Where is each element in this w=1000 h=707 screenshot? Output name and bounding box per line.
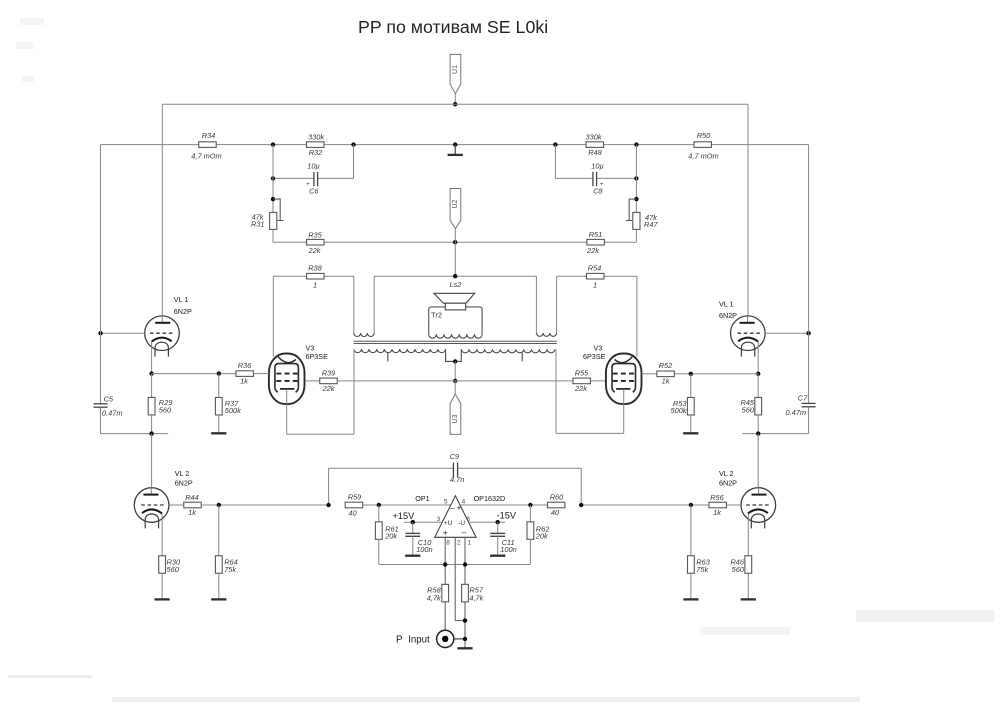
resistor R39 xyxy=(305,368,456,393)
resistor R35 xyxy=(307,231,325,255)
resistor R29 xyxy=(148,374,172,434)
svg-text:+: + xyxy=(457,504,462,513)
capacitor C5 xyxy=(94,145,123,434)
wire VL1 left grid xyxy=(101,332,145,334)
resistor R54 xyxy=(557,264,637,290)
wire VL1 right cathode xyxy=(757,342,759,374)
svg-text:330k: 330k xyxy=(585,132,601,141)
node +15V xyxy=(411,520,415,524)
svg-text:R47: R47 xyxy=(644,220,658,229)
inductor primary winding xyxy=(354,349,555,361)
inductor secondary left section xyxy=(354,333,374,337)
tube V3 right 6P3SE xyxy=(583,276,642,404)
node R64 top xyxy=(217,503,221,507)
svg-text:–: – xyxy=(450,503,455,512)
wire VL2 right cathode xyxy=(747,514,749,556)
node C9 left xyxy=(326,503,330,507)
trimmer R31 xyxy=(251,199,284,229)
svg-text:6P3SE: 6P3SE xyxy=(583,352,606,361)
ground R53 xyxy=(683,432,698,434)
node R32 right xyxy=(351,142,355,146)
wire R31 branch xyxy=(273,145,307,243)
resistor R30 xyxy=(159,556,181,599)
svg-text:+: + xyxy=(306,181,310,188)
svg-text:P: P xyxy=(396,634,402,645)
svg-text:+: + xyxy=(443,528,448,538)
wire op-amp pin 8 xyxy=(444,537,446,584)
svg-text:8: 8 xyxy=(446,539,450,546)
svg-text:6N2P: 6N2P xyxy=(174,307,192,316)
svg-text:2: 2 xyxy=(457,539,461,546)
node R34-R32 xyxy=(271,142,275,146)
resistor R51 xyxy=(586,230,604,255)
svg-text:R34: R34 xyxy=(202,131,216,140)
svg-text:500k: 500k xyxy=(225,406,241,415)
node -15V xyxy=(496,520,500,524)
svg-text:100n: 100n xyxy=(500,545,516,554)
resistor R37 xyxy=(215,374,241,433)
svg-text:-15V: -15V xyxy=(497,510,517,520)
svg-text:330k: 330k xyxy=(308,132,324,141)
svg-text:R55: R55 xyxy=(575,368,589,377)
capacitor C9 feedback xyxy=(329,452,582,505)
svg-text:R60: R60 xyxy=(550,493,564,502)
resistor R50 xyxy=(688,131,718,160)
inductor secondary right section xyxy=(536,333,556,336)
tube VL1 right 6N2P xyxy=(719,300,765,357)
node VL1 left cathode xyxy=(149,371,153,375)
svg-text:560: 560 xyxy=(732,565,745,574)
svg-text:R51: R51 xyxy=(589,230,603,239)
resistor R38 xyxy=(273,264,354,290)
svg-text:1k: 1k xyxy=(662,377,670,386)
svg-text:0.47m: 0.47m xyxy=(102,408,123,417)
transformer Tr2 box xyxy=(429,307,482,338)
resistor R46 xyxy=(730,556,751,599)
node R48 left xyxy=(553,142,557,146)
ground R63 xyxy=(683,598,698,600)
svg-text:1k: 1k xyxy=(240,377,248,386)
svg-text:U1: U1 xyxy=(452,65,459,74)
wire bottom right xyxy=(742,433,808,435)
ground R37 xyxy=(211,432,226,434)
svg-text:VL 2: VL 2 xyxy=(719,469,734,478)
svg-text:U3: U3 xyxy=(452,414,459,423)
svg-text:4: 4 xyxy=(462,499,466,506)
svg-text:C5: C5 xyxy=(104,394,114,403)
svg-text:22k: 22k xyxy=(574,384,587,393)
wire right rail down xyxy=(808,145,810,334)
svg-text:40: 40 xyxy=(551,508,560,517)
svg-text:0.47m: 0.47m xyxy=(785,408,806,417)
node C8 right xyxy=(634,176,638,180)
svg-text:22k: 22k xyxy=(308,246,321,255)
svg-text:C7: C7 xyxy=(798,393,808,402)
node U1 junction xyxy=(453,102,457,106)
resistor R63 xyxy=(688,505,711,599)
wire V3 right cathode to primary xyxy=(556,349,624,433)
svg-text:OP1: OP1 xyxy=(415,494,429,503)
svg-text:6N2P: 6N2P xyxy=(719,311,737,320)
capacitor C7 xyxy=(785,333,815,433)
tube VL2 right 6N2P xyxy=(719,434,776,529)
svg-text:1k: 1k xyxy=(188,508,196,517)
resistor R58 xyxy=(427,584,449,630)
svg-text:6N2P: 6N2P xyxy=(719,478,737,487)
wire bottom left xyxy=(101,433,169,435)
svg-text:75k: 75k xyxy=(224,565,236,574)
svg-text:+U: +U xyxy=(444,520,453,527)
input jack P xyxy=(396,630,465,647)
svg-text:-U: -U xyxy=(458,520,465,527)
svg-text:6P3SE: 6P3SE xyxy=(306,352,329,361)
svg-text:4,7 mOm: 4,7 mOm xyxy=(688,151,718,160)
svg-text:20k: 20k xyxy=(384,532,397,541)
svg-text:1: 1 xyxy=(593,281,597,290)
svg-text:R38: R38 xyxy=(308,264,322,273)
wire VL1 right grid xyxy=(765,332,809,334)
svg-text:4.7n: 4.7n xyxy=(450,475,464,484)
svg-text:PP по мотивам SE L0ki: PP по мотивам SE L0ki xyxy=(358,17,548,37)
wire op-amp bottom rail xyxy=(379,564,531,566)
node primary center tap xyxy=(453,359,457,363)
node U2 tap xyxy=(453,240,457,244)
transformer core xyxy=(354,341,557,343)
wire R51 to R47 xyxy=(605,145,637,243)
wire -15V supply xyxy=(469,510,517,522)
wire top middle (U2 tap to secondary) xyxy=(354,276,557,333)
connector U1 xyxy=(450,54,461,104)
wire op-amp pin 1 xyxy=(464,537,466,584)
svg-text:22k: 22k xyxy=(586,246,599,255)
svg-text:R39: R39 xyxy=(322,368,336,377)
node VL1 left grid xyxy=(98,331,102,335)
node pin 1 xyxy=(463,562,467,566)
resistor R44 xyxy=(169,493,329,517)
svg-text:R35: R35 xyxy=(308,231,322,240)
node C9 right xyxy=(579,503,583,507)
wire op-amp pin 2 xyxy=(455,537,465,620)
ground R46 xyxy=(741,598,756,600)
resistor R48 xyxy=(585,132,603,157)
svg-text:10µ: 10µ xyxy=(307,162,319,171)
resistor R53 xyxy=(670,374,694,433)
svg-text:R32: R32 xyxy=(309,148,323,157)
svg-text:R50: R50 xyxy=(697,131,711,140)
trimmer R47 xyxy=(626,199,659,229)
ground R30 xyxy=(155,598,170,600)
wire VL1 left cathode xyxy=(151,342,153,374)
resistor R57 xyxy=(462,584,484,647)
svg-text:VL 1: VL 1 xyxy=(174,295,189,304)
svg-text:–: – xyxy=(462,527,467,537)
svg-text:R56: R56 xyxy=(710,493,724,502)
wire top rail xyxy=(162,104,748,323)
node R31 top xyxy=(271,197,275,201)
ground input xyxy=(457,647,472,649)
resistor R61 xyxy=(375,505,398,565)
resistor R36 xyxy=(236,361,269,386)
node R37 top xyxy=(217,371,221,375)
svg-text:560: 560 xyxy=(159,405,172,414)
speaker Ls2 xyxy=(434,280,475,310)
wire R35 to U2 xyxy=(323,241,586,243)
svg-text:40: 40 xyxy=(348,508,357,517)
node R63 top xyxy=(689,503,693,507)
node secondary top tap xyxy=(453,274,457,278)
svg-text:R54: R54 xyxy=(588,264,602,273)
wire main B+ rail xyxy=(101,144,809,146)
svg-text:R36: R36 xyxy=(238,361,252,370)
wire C6 branch xyxy=(273,145,354,179)
node VL2 right anode xyxy=(756,431,760,435)
svg-text:VL 2: VL 2 xyxy=(175,469,190,478)
svg-text:+: + xyxy=(600,181,604,188)
node R53 top xyxy=(689,372,693,376)
svg-text:C6: C6 xyxy=(309,187,319,196)
svg-text:500k: 500k xyxy=(670,406,686,415)
svg-text:Tr2: Tr2 xyxy=(431,311,442,320)
resistor R62 xyxy=(527,505,549,565)
node R48 right xyxy=(634,142,638,146)
svg-text:6N2P: 6N2P xyxy=(175,478,193,487)
svg-text:75k: 75k xyxy=(696,565,708,574)
svg-text:C9: C9 xyxy=(450,452,459,461)
svg-text:20k: 20k xyxy=(535,532,548,541)
node R62 top xyxy=(528,503,532,507)
wire cathode row left xyxy=(152,373,236,375)
resistor R56 xyxy=(581,493,741,517)
svg-text:560: 560 xyxy=(742,405,755,414)
node op-amp left xyxy=(377,503,381,507)
tube V3 left 6P3SE xyxy=(269,276,328,404)
svg-text:Input: Input xyxy=(408,634,430,645)
tube VL1 left 6N2P xyxy=(145,295,192,357)
svg-text:U2: U2 xyxy=(452,199,459,208)
node VL1 right grid xyxy=(806,331,810,335)
svg-text:4,7 mOm: 4,7 mOm xyxy=(191,151,221,160)
svg-text:5: 5 xyxy=(444,498,448,505)
ground C10 xyxy=(405,555,420,557)
capacitor C6 xyxy=(306,162,320,196)
svg-text:560: 560 xyxy=(167,565,180,574)
svg-text:R31: R31 xyxy=(251,219,265,228)
resistor R45 xyxy=(740,374,761,434)
svg-text:1: 1 xyxy=(313,281,317,290)
node screen wire junction xyxy=(453,379,457,383)
resistor R52 xyxy=(642,361,759,386)
capacitor C11 xyxy=(490,522,516,554)
tube VL2 left 6N2P xyxy=(134,434,193,529)
svg-text:10µ: 10µ xyxy=(591,162,603,171)
node C6 left xyxy=(271,176,275,180)
svg-text:R44: R44 xyxy=(185,493,199,502)
resistor R34 xyxy=(191,131,221,160)
node VL1 right cathode xyxy=(756,372,760,376)
ground C11 xyxy=(490,555,505,557)
node R47 top xyxy=(634,197,638,201)
wire VL2 left cathode xyxy=(161,514,163,556)
connector U3 xyxy=(450,381,461,435)
ground R64 xyxy=(211,598,226,600)
resistor R60 xyxy=(460,493,565,517)
op-amp OP1 xyxy=(415,494,505,546)
svg-text:22k: 22k xyxy=(322,384,335,393)
wire V3 left cathode to primary xyxy=(287,349,354,434)
svg-text:R48: R48 xyxy=(588,148,602,157)
node VL2 left anode xyxy=(149,431,153,435)
ground at center of main rail xyxy=(448,142,463,156)
resistor R64 xyxy=(215,505,237,599)
svg-text:R52: R52 xyxy=(659,361,673,370)
capacitor C10 xyxy=(405,522,432,554)
svg-text:4,7k: 4,7k xyxy=(427,594,441,603)
svg-text:100n: 100n xyxy=(416,545,432,554)
resistor R55 xyxy=(455,368,606,393)
svg-text:VL 1: VL 1 xyxy=(719,300,734,309)
resistor R32 xyxy=(307,132,325,157)
node pin2-R57 xyxy=(463,618,467,622)
connector U2 xyxy=(450,189,461,277)
svg-text:4,7k: 4,7k xyxy=(469,594,483,603)
capacitor C8 xyxy=(591,162,604,196)
node pin 8 xyxy=(443,562,447,566)
wire C8 branch xyxy=(555,145,636,179)
svg-text:R59: R59 xyxy=(348,493,362,502)
wire +15V supply xyxy=(393,511,443,522)
svg-text:+15V: +15V xyxy=(393,511,416,521)
wire center tap down xyxy=(454,361,456,381)
resistor R59 xyxy=(345,493,451,518)
svg-text:1: 1 xyxy=(468,539,472,546)
node jack shell xyxy=(463,637,467,641)
svg-text:Ls2: Ls2 xyxy=(450,280,462,289)
svg-text:1k: 1k xyxy=(713,508,721,517)
svg-text:OP1632D: OP1632D xyxy=(474,494,506,503)
